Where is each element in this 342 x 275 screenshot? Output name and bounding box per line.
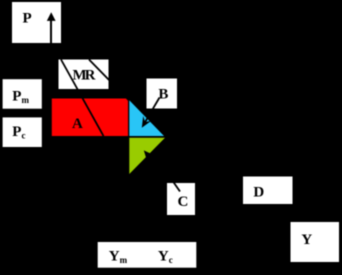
P axis arrow (vertical, in P box) xyxy=(50,18,52,44)
svg-text:B: B xyxy=(158,87,168,103)
svg-text:MR: MR xyxy=(73,68,96,84)
label box Pc xyxy=(3,117,42,147)
svg-text:P: P xyxy=(23,11,32,27)
demand curve D (diagonal through MR box and hypotenuse of B) xyxy=(89,60,166,138)
arrow from C label into green triangle xyxy=(148,155,180,192)
label box D xyxy=(243,177,293,205)
label box Y xyxy=(291,222,340,262)
MR curve (steep diagonal through MR box and region A) xyxy=(61,60,104,137)
label box MR xyxy=(59,60,109,90)
label box Pm xyxy=(3,79,42,109)
label box P xyxy=(12,2,61,43)
region A (profit rectangle, red) xyxy=(52,99,128,137)
label box C xyxy=(167,183,195,215)
svg-text:Y: Y xyxy=(301,232,312,248)
region C (deadweight lower triangle, green) xyxy=(129,138,165,174)
label box Ym Yc xyxy=(98,242,197,268)
svg-text:C: C xyxy=(178,194,189,210)
svg-text:A: A xyxy=(72,116,83,132)
svg-text:D: D xyxy=(253,184,264,200)
label box B xyxy=(147,79,178,109)
region B (deadweight upper triangle, cyan) xyxy=(129,100,164,136)
arrow from B label into cyan triangle xyxy=(145,98,159,123)
